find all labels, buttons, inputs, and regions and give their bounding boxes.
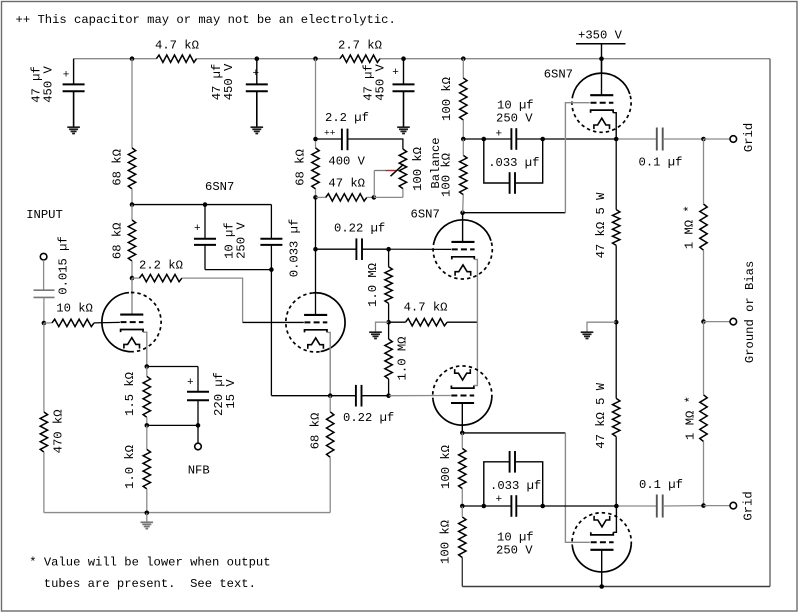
wire 1.0k to rail xyxy=(146,489,148,513)
wire tube2 grid lead xyxy=(243,321,304,323)
capacitor .033 uf (upper right) xyxy=(510,172,515,194)
wire rail to 68k c xyxy=(315,59,317,148)
wire 1.0Mb bottom lead xyxy=(388,379,390,396)
wire row139 to 0.1uf xyxy=(616,138,657,140)
svg-text:1.5 kΩ: 1.5 kΩ xyxy=(123,372,137,416)
label 2.7 kΩ xyxy=(338,39,382,53)
svg-text:+: + xyxy=(187,377,194,389)
wire 68kc to node xyxy=(315,189,317,198)
wire 1.5k bottom lead xyxy=(146,417,148,425)
svg-text:6SN7: 6SN7 xyxy=(544,68,573,82)
wire 10uf lower lead xyxy=(204,245,206,270)
node caps bottom xyxy=(269,267,274,272)
wire 100ka to row139 xyxy=(462,120,464,139)
wire rail to 68k a xyxy=(131,59,133,148)
wire 10k to tube1 grid xyxy=(94,321,120,324)
wire B+ rail c xyxy=(380,58,770,60)
label 68 kΩ (mid) xyxy=(293,149,307,186)
svg-text:100 kΩ: 100 kΩ xyxy=(440,153,454,197)
svg-text:6SN7: 6SN7 xyxy=(205,180,234,194)
node plate mid 132 xyxy=(130,202,135,207)
label Grid (top) xyxy=(742,123,756,152)
svg-text:1 MΩ *: 1 MΩ * xyxy=(683,396,697,440)
capacitor 0.22 uf (lower) xyxy=(356,385,362,407)
svg-text:Grid: Grid xyxy=(741,491,755,520)
svg-text:NFB: NFB xyxy=(188,464,210,478)
tube 6SN7 triode V2b xyxy=(433,366,492,425)
ground main xyxy=(141,522,154,528)
wire tube4 cathode lead xyxy=(474,384,478,387)
wire to bias term xyxy=(704,321,731,323)
capacitor 0.1 uf (top) xyxy=(657,128,663,151)
svg-text:Grid: Grid xyxy=(742,123,756,152)
wire row204 xyxy=(132,204,271,206)
svg-text:100 kΩ: 100 kΩ xyxy=(439,445,453,489)
tube 6SN7 triode V3b xyxy=(572,513,631,572)
label 1 MΩ * (upper) xyxy=(683,205,697,249)
node row506 left xyxy=(460,504,465,509)
wire tube5 cathode lead xyxy=(613,113,616,139)
wire B+ rail a xyxy=(74,58,157,60)
wire tube6 cathode lead xyxy=(613,506,616,532)
wire row506 c xyxy=(516,505,542,507)
wire ground rail left xyxy=(44,512,330,514)
wire grid3 row xyxy=(389,248,452,250)
resistor 1.5 kΩ xyxy=(143,376,150,417)
svg-text:2.2 µf: 2.2 µf xyxy=(325,111,369,125)
label 400 V xyxy=(328,155,365,169)
wire B+ rail b xyxy=(197,58,341,60)
svg-text:0.015 µf: 0.015 µf xyxy=(57,236,71,295)
svg-text:0.033 µf: 0.033 µf xyxy=(288,219,302,278)
label 47 uf 450 V (right) xyxy=(361,64,387,101)
terminal NFB xyxy=(195,443,202,450)
label 100 kΩ (bottom a) xyxy=(439,445,453,489)
wire 2.2k to tube2 grid xyxy=(182,278,243,322)
capacitor 0.033 uf (left pair) xyxy=(260,239,282,245)
wire cap2 bottom lead xyxy=(256,91,258,126)
node row395 cathode2 xyxy=(328,393,333,398)
label 1.0 kΩ xyxy=(123,445,137,489)
wire 0.22b mid xyxy=(330,395,356,397)
node pair left xyxy=(482,137,487,142)
svg-text:0.22 µf: 0.22 µf xyxy=(334,222,385,236)
svg-text:1.0 kΩ: 1.0 kΩ xyxy=(123,445,137,489)
label 6SN7 (splitter) xyxy=(411,207,440,221)
wire cap3 bottom lead xyxy=(403,91,405,126)
wire row506 e xyxy=(663,505,704,507)
wire caps to row395 xyxy=(270,270,272,396)
tube 6SN7 triode V1b xyxy=(286,293,345,352)
wire row139 e xyxy=(663,138,704,140)
svg-text:68 kΩ: 68 kΩ xyxy=(111,149,125,186)
wire NFB lead xyxy=(197,425,199,443)
svg-text:++: ++ xyxy=(324,127,336,138)
wire 47k to pot bottom xyxy=(374,196,403,198)
wire tube3 plate lead xyxy=(462,213,464,242)
wire 0.22a right xyxy=(362,248,389,250)
capacitor 47 uf 450 V (mid) xyxy=(246,68,268,91)
wire row139 c xyxy=(516,138,542,140)
svg-text:450 V: 450 V xyxy=(222,63,236,100)
wire wiper down xyxy=(373,171,375,198)
wire plate3 to grid5 col xyxy=(463,212,566,214)
label 47 kΩ 5 W (lower) xyxy=(594,382,608,449)
wire 68kd to rail xyxy=(329,457,331,512)
resistor 68 kΩ (upper left) xyxy=(128,148,135,189)
wire 1.0Ma top lead xyxy=(388,249,390,267)
label 6SN7 (top right) xyxy=(544,68,573,82)
svg-text:68 kΩ: 68 kΩ xyxy=(309,413,323,450)
wire 100kd lead xyxy=(461,506,463,517)
wire 1.0Mb top lead xyxy=(388,322,390,339)
capacitor 47 uf 450 V (left) xyxy=(63,70,85,92)
wire tube6 plate lead xyxy=(601,550,603,587)
wire row506 a xyxy=(462,505,484,507)
svg-text:47 kΩ: 47 kΩ xyxy=(328,177,365,191)
tube 6SN7 triode V1a xyxy=(102,292,161,351)
svg-text:470 kΩ: 470 kΩ xyxy=(52,409,66,453)
label 0.1 uf (bottom) xyxy=(639,478,683,492)
svg-text:* Value will be lower when out: * Value will be lower when output xyxy=(29,556,270,570)
node tube4 plate xyxy=(460,431,465,436)
wire cap2 top lead xyxy=(256,59,258,85)
ground below cap3 xyxy=(397,127,410,133)
label 100 kΩ (bottom b) xyxy=(439,520,453,564)
node 10uf top xyxy=(203,202,208,207)
wire plate4 row xyxy=(462,432,565,434)
wire row139 a xyxy=(463,138,484,140)
resistor 2.7 kΩ xyxy=(340,55,380,62)
wire 68kb lead xyxy=(131,205,133,220)
capacitor 10 uf 250 V (lower right) xyxy=(496,494,517,517)
svg-text:+350 V: +350 V xyxy=(578,29,623,43)
resistor 10 kΩ xyxy=(52,319,94,326)
wire 033b loop b xyxy=(515,462,543,506)
label 100 kΩ (balance) xyxy=(411,147,425,191)
wire 68kd upper lead xyxy=(329,396,331,412)
svg-text:+: + xyxy=(253,68,260,80)
capacitor 0.22 uf (upper) xyxy=(356,238,362,260)
wire rail to 100k xyxy=(462,59,464,78)
label 0.033 uf (left pair) xyxy=(288,219,302,278)
svg-text:450 V: 450 V xyxy=(42,66,56,103)
resistor 2.2 kΩ xyxy=(139,274,182,281)
wire row139 d xyxy=(543,138,617,140)
node input junction xyxy=(42,321,47,326)
wire row506 b xyxy=(484,505,512,507)
wire 2.2uf right xyxy=(348,139,403,149)
wire tube5 plate lead xyxy=(601,59,603,95)
terminal Grid (bottom) xyxy=(730,502,737,509)
wire 100kb to plate xyxy=(462,195,465,213)
svg-text:1.0 MΩ: 1.0 MΩ xyxy=(395,337,409,381)
label Grid (bottom) xyxy=(741,491,755,520)
label 4.7 kΩ (tail) xyxy=(404,301,448,315)
svg-text:15 V: 15 V xyxy=(224,379,238,409)
wire 2.2k left lead xyxy=(132,277,139,279)
node rail cap2 xyxy=(254,56,259,61)
note text ++ electrolytic xyxy=(16,13,396,27)
svg-text:+: + xyxy=(194,223,201,235)
label 10 uf 250 V (lower right) xyxy=(496,531,534,558)
svg-text:10 µf: 10 µf xyxy=(497,99,534,113)
node row506 grid term xyxy=(701,503,706,508)
wire input cap down xyxy=(43,297,45,323)
wire 1M b xyxy=(703,250,705,321)
capacitor 2.2 uf 400 V xyxy=(342,129,348,151)
wire pot bottom lead xyxy=(402,189,404,198)
label 0.015 uf xyxy=(57,236,71,295)
node row139 cathode5 xyxy=(614,137,619,142)
svg-text:4.7 kΩ: 4.7 kΩ xyxy=(404,301,448,315)
label 100 kΩ (top b) xyxy=(440,153,454,197)
wire cap3 top lead xyxy=(403,59,405,85)
wire 10uf upper lead xyxy=(204,205,206,239)
wire 1M c xyxy=(703,322,705,395)
label 2.2 uf xyxy=(325,111,369,125)
wire tube2 plate column xyxy=(315,197,317,315)
footnote line 2 xyxy=(44,577,256,591)
label 47 kΩ 5 W (upper) xyxy=(594,192,608,259)
wire row425 xyxy=(147,424,198,426)
label 1 MΩ * (lower) xyxy=(683,396,697,440)
label 1.5 kΩ xyxy=(123,372,137,416)
label 470 kΩ xyxy=(52,409,66,453)
svg-text:.033 µf: .033 µf xyxy=(488,156,539,170)
node row139 grid term xyxy=(701,137,706,142)
wire gnd stub mid xyxy=(376,322,389,331)
wire input to cap xyxy=(43,260,45,290)
wire 1.0Ma bottom lead xyxy=(388,303,390,322)
wire bottom-right rail xyxy=(462,586,770,588)
wire 100kc b xyxy=(461,489,463,506)
node rail-68k left xyxy=(130,56,135,61)
node row139 left xyxy=(461,137,466,142)
wire 68ka to node xyxy=(131,189,133,205)
label .033 uf (lower right) xyxy=(490,479,541,493)
node ground rail xyxy=(145,511,150,516)
node pair right b xyxy=(540,504,545,509)
wire 47k left lead xyxy=(316,196,326,198)
resistor 68 kΩ (below tube2) xyxy=(327,412,334,458)
resistor 4.7 kΩ (top left) xyxy=(156,55,196,62)
label .033 uf (upper right) xyxy=(488,156,539,170)
terminal Ground or Bias xyxy=(730,318,737,325)
svg-text:47 kΩ 5 W: 47 kΩ 5 W xyxy=(594,192,608,259)
svg-text:2.7 kΩ: 2.7 kΩ xyxy=(338,39,382,53)
node pair left b xyxy=(482,504,487,509)
wire 100kb top lead xyxy=(462,139,464,155)
wire 0.22a left xyxy=(316,248,357,250)
node bias xyxy=(701,319,706,324)
node 47k row xyxy=(313,195,318,200)
svg-text:250 V: 250 V xyxy=(496,544,533,558)
wire grid4 row xyxy=(389,395,451,397)
label 6SN7 (first stage) xyxy=(205,180,234,194)
wire tube5 grid wire xyxy=(565,103,589,213)
node splitter mid xyxy=(386,320,391,325)
label Balance xyxy=(429,137,443,188)
pot wiper arrow xyxy=(374,164,403,176)
label 0.22 uf (upper) xyxy=(334,222,385,236)
resistor 4.7 kΩ (tail) xyxy=(406,319,448,326)
wire tube2 cathode lead xyxy=(327,332,330,395)
node rail 100k column xyxy=(461,56,466,61)
svg-text:10 kΩ: 10 kΩ xyxy=(56,302,93,316)
wire 033 loop xyxy=(484,139,510,183)
svg-text:tubes are present. See text.: tubes are present. See text. xyxy=(44,577,256,591)
wire row139 b xyxy=(484,138,512,140)
label 0.1 uf (top) xyxy=(639,155,683,169)
tube 6SN7 triode V2a xyxy=(433,220,492,279)
svg-text:++ This capacitor may or may n: ++ This capacitor may or may not be an e… xyxy=(16,13,396,27)
terminal INPUT xyxy=(40,253,47,260)
resistor 47 kΩ xyxy=(326,194,367,201)
node mid ground xyxy=(614,320,619,325)
node 0.22b out xyxy=(386,393,391,398)
node tube3 plate xyxy=(460,210,465,215)
terminal Grid (top) xyxy=(730,136,737,143)
label 10 kΩ xyxy=(56,302,93,316)
node rail cap3 xyxy=(401,56,406,61)
svg-text:+: + xyxy=(63,70,70,82)
node pair right xyxy=(540,137,545,142)
wire tube3 cathode lead xyxy=(474,259,477,322)
wire gnd stub right xyxy=(587,322,616,331)
potentiometer 100 kΩ Balance xyxy=(399,149,406,189)
resistor 1 MΩ (upper) xyxy=(700,204,707,250)
node 2.2uf row xyxy=(313,137,318,142)
svg-text:6SN7: 6SN7 xyxy=(411,207,440,221)
label 100 kΩ (top a) xyxy=(440,77,454,121)
label 10 uf 250 V (left pair) xyxy=(222,222,248,259)
svg-text:1 MΩ *: 1 MΩ * xyxy=(683,205,697,249)
wire +350V lead xyxy=(601,44,603,73)
svg-text:250 V: 250 V xyxy=(235,222,249,259)
svg-text:400 V: 400 V xyxy=(328,155,365,169)
wire 47k5w a xyxy=(615,139,617,210)
wire 100kc a xyxy=(461,433,463,449)
wire 470k upper lead xyxy=(43,323,45,412)
svg-text:100 kΩ: 100 kΩ xyxy=(411,147,425,191)
wire tube1 plate lead xyxy=(131,278,133,315)
label 68 kΩ (lower left) xyxy=(111,223,125,260)
label INPUT xyxy=(26,208,63,222)
ground below cap2 xyxy=(251,127,264,133)
wire 1M d xyxy=(703,442,705,506)
label 47 uf 450 V (left) xyxy=(29,66,55,103)
label Ground or Bias xyxy=(743,261,757,363)
resistor 100 kΩ (bottom a) xyxy=(459,448,466,488)
wire 4.7k right lead xyxy=(447,321,477,323)
resistor 68 kΩ (mid) xyxy=(312,148,319,189)
label 68 kΩ (upper left) xyxy=(111,149,125,186)
capacitor 10 uf 250 V (left pair) xyxy=(194,223,216,245)
label 68 kΩ (below tube2) xyxy=(309,413,323,450)
label NFB xyxy=(188,464,210,478)
wire 47k5w c xyxy=(615,322,617,398)
label ++ mark xyxy=(324,127,336,138)
label 1.0 MΩ (lower) xyxy=(395,337,409,381)
resistor 47 kΩ 5 W (upper) xyxy=(613,210,620,246)
wire cathode tail xyxy=(476,322,478,385)
wire 47k5w b xyxy=(615,245,617,322)
label 4.7 kΩ (top left) xyxy=(155,39,199,53)
capacitor 220 uf 15 V xyxy=(187,377,209,400)
wire 0.033 upper lead xyxy=(270,205,272,239)
resistor 100 kΩ (top b) xyxy=(460,155,467,194)
capacitor 0.015 uf xyxy=(34,290,55,297)
svg-text:100 kΩ: 100 kΩ xyxy=(439,520,453,564)
svg-text:450 V: 450 V xyxy=(374,64,388,101)
wire 033 loop b xyxy=(515,139,543,183)
capacitor 0.1 uf (bottom) xyxy=(657,495,663,518)
svg-text:10 µf: 10 µf xyxy=(497,531,534,545)
svg-text:+: + xyxy=(392,67,399,79)
wire cap220 top lead xyxy=(197,367,199,392)
wire tube1 cathode lead xyxy=(143,332,147,366)
node rail tube5 plate xyxy=(599,56,604,61)
wire 68kb to plate node xyxy=(131,261,133,278)
resistor 47 kΩ 5 W (lower) xyxy=(613,398,620,436)
svg-text:+: + xyxy=(496,494,503,506)
tube 6SN7 triode V3a xyxy=(572,73,631,132)
capacitor 47 uf 450 V (right) xyxy=(392,67,414,91)
wire cap220 bottom lead xyxy=(197,400,199,425)
wire row395 left xyxy=(271,395,330,397)
wire bottom-right rail up to 100k xyxy=(461,558,463,587)
label 0.22 uf (lower) xyxy=(343,411,394,425)
label 10 uf 250 V (upper right) xyxy=(496,99,534,126)
footnote line 1 xyxy=(29,556,270,570)
wire tube4 plate lead xyxy=(461,403,463,433)
wire row506 d xyxy=(543,505,617,507)
svg-text:.033 µf: .033 µf xyxy=(490,479,541,493)
wire 4.7k left lead xyxy=(389,321,406,323)
wire 47k right lead xyxy=(367,196,374,198)
capacitor .033 uf (lower right) xyxy=(510,451,515,473)
wire grid6 col xyxy=(565,433,590,542)
svg-text:0.1 µf: 0.1 µf xyxy=(639,155,683,169)
wire 2.2uf left xyxy=(316,138,342,140)
svg-text:47 kΩ 5 W: 47 kΩ 5 W xyxy=(594,382,608,449)
node cap220 bottom xyxy=(196,423,201,428)
resistor 1 MΩ (lower) xyxy=(700,395,707,442)
ground below cap1 xyxy=(67,127,80,133)
wire 10k left lead xyxy=(44,322,52,324)
wire row506 to 0.1uf xyxy=(616,505,656,507)
wire to grid term b xyxy=(704,505,731,507)
label 1.0 MΩ (upper) xyxy=(366,263,380,307)
wire 0.033 lower lead xyxy=(270,245,272,270)
resistor 1.0 MΩ (lower) xyxy=(385,339,392,379)
node tube1 plate xyxy=(130,276,135,281)
wire +350V bar xyxy=(576,43,626,45)
resistor 1.0 kΩ xyxy=(143,449,150,489)
wire cap1 bottom lead xyxy=(73,91,75,126)
wire cap1 top lead xyxy=(73,59,75,85)
resistor 100 kΩ (top a) xyxy=(460,78,467,120)
wire right rail down xyxy=(769,59,771,587)
label 220 uf 15 V xyxy=(212,372,238,416)
node row506 cathode6 xyxy=(614,504,619,509)
resistor 1.0 MΩ (upper) xyxy=(385,267,392,304)
resistor 470 kΩ xyxy=(40,412,47,452)
wire 1.0k upper lead xyxy=(146,425,148,449)
resistor 100 kΩ (bottom b) xyxy=(459,517,466,558)
ground mid right xyxy=(581,332,594,338)
